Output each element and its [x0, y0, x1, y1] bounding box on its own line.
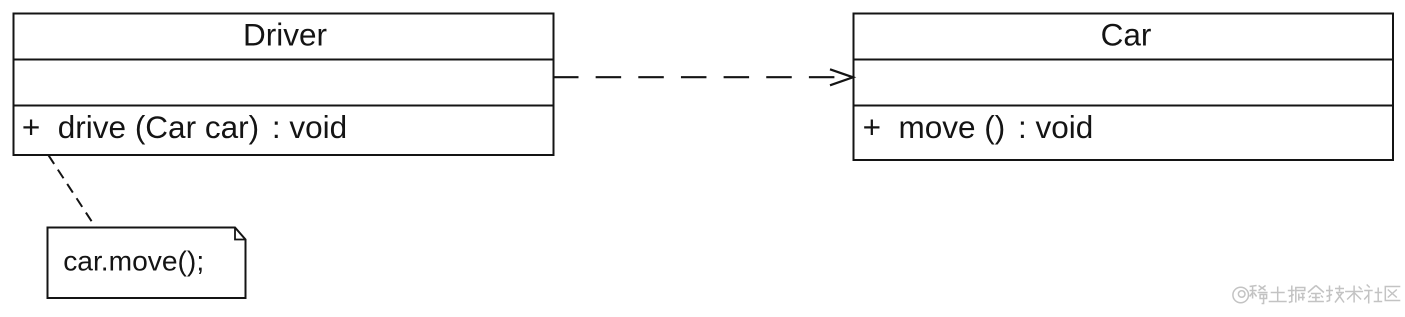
- svg-text:Car: Car: [1101, 17, 1152, 53]
- class Car outline: [854, 14, 1394, 161]
- watermark char 术: [1345, 286, 1363, 303]
- svg-text:+ drive (Car car) : void: + drive (Car car) : void: [22, 109, 347, 145]
- class Driver compartment divider 1: [14, 59, 554, 61]
- watermark char 社: [1364, 285, 1382, 304]
- watermark char 区: [1385, 287, 1400, 301]
- class Driver outline: [14, 14, 554, 156]
- class Driver name label: [243, 17, 327, 53]
- watermark char 掘: [1288, 286, 1305, 303]
- note outline (folded corner): [48, 228, 246, 299]
- class Driver method label: + drive (Car car) : void: [22, 109, 347, 145]
- class Car method label: + move () : void: [863, 109, 1094, 145]
- class Car compartment divider 1: [854, 59, 1394, 61]
- watermark @稀土掘金技术社区 (drawn strokes, no CJK font): [1233, 285, 1400, 304]
- watermark char 金: [1308, 286, 1324, 302]
- class Car compartment divider 2: [854, 105, 1394, 107]
- watermark @: [1233, 287, 1249, 303]
- svg-text:Driver: Driver: [243, 17, 327, 53]
- class Car name label: [1101, 17, 1152, 53]
- note text label: car.move();: [63, 244, 204, 276]
- class Driver compartment divider 2: [14, 105, 554, 107]
- dependency arrowhead (open V): [830, 69, 853, 85]
- dependency arrow shaft (dashed, Driver to Car): [553, 76, 835, 78]
- svg-text:+ move () : void: + move () : void: [863, 109, 1094, 145]
- watermark char 土: [1269, 287, 1287, 302]
- note fold lines: [235, 228, 246, 240]
- note anchor dashed line: [49, 155, 97, 228]
- svg-text:car.move();: car.move();: [63, 244, 204, 276]
- watermark char 技: [1326, 286, 1344, 303]
- watermark char 稀: [1250, 286, 1268, 304]
